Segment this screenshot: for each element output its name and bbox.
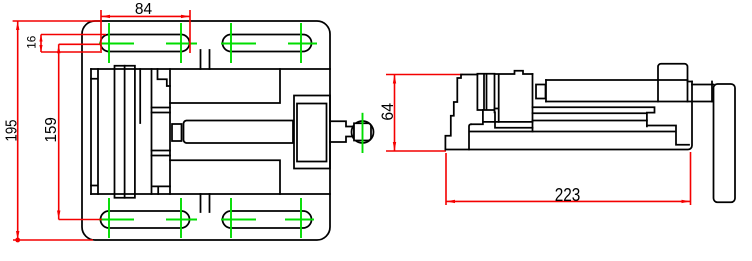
arrows 159 [57,44,60,53]
slot bottom-left [101,211,190,228]
dim 159 extension lines [59,44,102,219]
screw nut housing inner [297,104,327,162]
screw coupling [172,124,182,141]
dim 84 line [101,15,190,17]
svg-text:223: 223 [555,185,581,205]
movable jaw left edge [90,69,92,194]
dim 223 extension lines [446,152,691,205]
vise body top edge [91,68,330,70]
screw bottom line [546,101,714,103]
base bottom edge [445,82,692,150]
dim 64 line [394,75,396,152]
centerline slot BR right hole [300,198,302,238]
arrows 223 [446,200,455,203]
movable jaw plate [477,74,494,113]
jaw right edge [169,69,171,194]
jaw key line [139,69,141,123]
dim 16 line [40,35,42,53]
movable jaw left profile [445,75,477,150]
dim 64 extension lines [386,75,463,152]
arrows 16 [39,35,42,42]
jaw front steps top [158,69,171,86]
dim 223 line [446,200,691,202]
lead screw shaft (top view) [184,121,294,144]
centerline slot BL left hole [108,198,110,238]
jaw back plate line [91,69,98,194]
jaw face horizontal lines [152,108,171,156]
arrows 64 [393,75,396,84]
jaw lower tongue [471,110,533,128]
green centerlines [99,23,363,238]
dim 195 line [17,21,19,240]
arrows 195 [16,21,19,30]
svg-text:64: 64 [378,103,397,121]
arrows 84 [101,15,110,18]
knob nut [354,123,371,140]
screw end cap (side) [536,85,546,99]
svg-text:195: 195 [3,119,20,141]
centerline slot BL right hole [180,198,182,238]
base plate outline (top view) [82,21,330,240]
screw tail [330,121,354,142]
channel between bottom slots [201,194,210,212]
dim 195 extension lines [13,21,102,240]
centerline slot TR right hole [300,23,302,63]
screw tail step [688,82,714,102]
vise body bottom edge [91,193,330,195]
jaw center block inner line [124,66,126,198]
screw nut housing outer [294,96,330,169]
slot top-left [101,35,190,52]
dim 159 line [58,44,60,219]
RIGHT VIEW (side view) [445,64,735,203]
red dimensions [13,10,691,240]
dim 84 extension lines [101,10,190,53]
slideway top line [170,69,280,103]
svg-text:16: 16 [24,35,38,48]
dimension texts [3,1,580,205]
slot top-right [223,35,312,52]
centerline slot TR left hole [230,23,232,63]
centerline knob [362,113,364,153]
svg-text:84: 84 [135,1,152,18]
base top edge [470,131,675,133]
centerline slot TL right hole [180,23,182,63]
centerline slot BR left hole [230,198,232,238]
handle rod [714,84,736,202]
slideway bottom line [170,160,280,194]
jaw front section line [151,69,153,194]
channel between top slots [201,50,210,69]
slideway lines below screw [533,107,655,126]
svg-text:159: 159 [43,117,60,142]
nut bracket block [658,64,688,102]
dot 195 [15,238,20,243]
red arrowheads [15,15,690,243]
dim 16 extension lines [41,35,106,53]
screw shaft top line [546,79,688,81]
way top line [533,120,647,122]
jaw front steps bottom [153,186,170,194]
screw shaft left edge [545,80,547,102]
jaw body right edge [532,74,534,132]
jaw lower front edge [469,124,471,149]
knob ball [352,121,374,143]
jaw top right steps [495,71,533,122]
centerline slot TL left hole [108,23,110,63]
fixed block inner lines [647,126,689,145]
jaw center block [115,66,135,198]
slot bottom-right [223,211,312,228]
